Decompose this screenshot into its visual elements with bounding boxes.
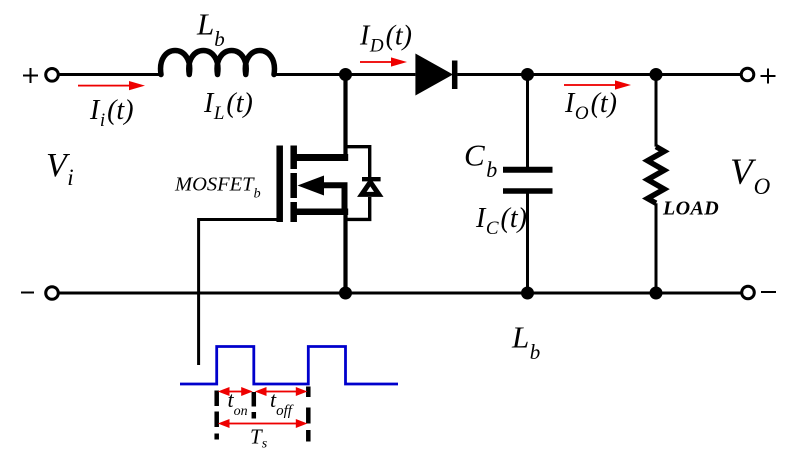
resistor LOAD bottom wire: [655, 203, 658, 293]
dashed marker line t0: [214, 391, 219, 441]
MOSFET Qb gate bar: [276, 146, 283, 223]
capacitor Cb bottom plate: [503, 188, 553, 194]
MOSFET Qb source wire: [343, 212, 347, 293]
node load top: [650, 68, 663, 81]
node capacitor bottom: [521, 287, 534, 300]
wire inductor to diode: [274, 73, 415, 76]
capacitor Cb top plate: [503, 167, 553, 173]
inductor Lb: [161, 51, 275, 75]
minus sign output terminal: [761, 291, 776, 293]
MOSFET Qb drain wire: [343, 75, 347, 159]
plus sign input terminal: [23, 68, 38, 83]
svg-text:LOAD: LOAD: [662, 198, 719, 220]
svg-text:IC(t): IC(t): [475, 203, 527, 239]
svg-text:IL(t): IL(t): [203, 88, 253, 124]
node mosfet source bottom: [339, 287, 352, 300]
resistor LOAD top wire: [655, 75, 658, 147]
terminal output negative: [742, 286, 755, 299]
MOSFET Qb drain bar: [294, 154, 348, 161]
svg-text:Ii(t): Ii(t): [89, 95, 134, 131]
MOSFET Qb channel bar segments: [290, 146, 297, 223]
body diode triangle: [362, 182, 379, 194]
node capacitor top: [521, 68, 534, 81]
node load bottom: [650, 287, 663, 300]
current arrow Ii(t): [78, 81, 145, 90]
plus sign output terminal: [761, 69, 776, 84]
gate wire: [199, 220, 277, 366]
current arrow IO(t): [564, 80, 631, 89]
terminal input positive: [46, 69, 59, 82]
wire diode to output: [458, 73, 742, 76]
current arrow ID(t): [360, 57, 407, 66]
diode D anode triangle: [415, 54, 453, 96]
diode D cathode bar: [452, 61, 458, 90]
svg-text:ID(t): ID(t): [359, 21, 412, 57]
PWM gate waveform: [180, 347, 398, 385]
timing arrow t_off: [255, 387, 308, 396]
MOSFET Qb body arrow tail: [322, 185, 345, 211]
bottom rail wire: [60, 292, 742, 295]
MOSFET Qb body arrow: [298, 176, 325, 196]
wire top-left: [60, 73, 162, 76]
timing arrow t_on: [218, 387, 253, 396]
body diode branch wires: [346, 147, 370, 220]
minus sign input terminal: [21, 292, 34, 294]
node drain junction: [339, 68, 352, 81]
body diode cathode bar: [362, 177, 381, 181]
timing arrow T_s: [218, 419, 308, 428]
resistor LOAD zigzag: [648, 147, 665, 204]
svg-text:IO(t): IO(t): [564, 88, 617, 124]
capacitor Cb top wire: [526, 75, 529, 168]
dashed marker line t1: [252, 392, 257, 419]
terminal output positive: [741, 68, 754, 81]
terminal input negative: [46, 287, 59, 300]
capacitor Cb bottom wire: [526, 194, 529, 294]
MOSFET Qb source bar: [294, 208, 348, 215]
dashed marker line t2: [306, 387, 311, 443]
